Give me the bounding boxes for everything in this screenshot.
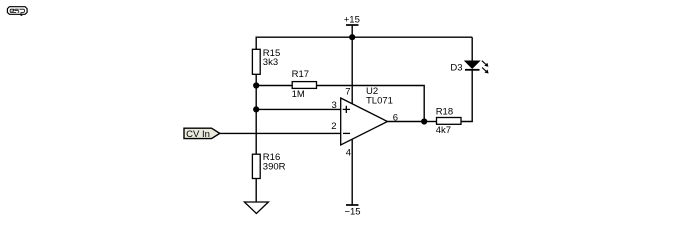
node A junction R15/R17: [253, 82, 259, 88]
wire node A vertical: [255, 86, 257, 155]
wire pin7 supply: [351, 37, 353, 104]
svg-text:1M: 1M: [292, 89, 305, 100]
node junction pin3: [253, 106, 259, 112]
svg-text:R18: R18: [436, 107, 453, 118]
wire R15 bottom lead: [255, 74, 257, 85]
LED arrow 1: [482, 61, 487, 65]
plus sign: [343, 108, 350, 110]
wire pin2 from CV In: [220, 132, 341, 134]
input tag CV In: [184, 128, 220, 140]
wire rail to LED: [471, 37, 473, 61]
esp logo: [7, 7, 27, 16]
svg-text:4k7: 4k7: [436, 125, 451, 136]
node junction +15 rail: [349, 34, 355, 40]
ground: [244, 202, 268, 214]
svg-text:3k3: 3k3: [263, 57, 278, 68]
svg-text:R17: R17: [292, 69, 309, 80]
minus sign: [343, 132, 350, 134]
svg-text:−15: −15: [344, 207, 360, 218]
+15 power terminal: [344, 15, 360, 38]
wire pin3: [256, 108, 341, 110]
svg-text:+15: +15: [344, 15, 360, 26]
resistor R16: [252, 152, 285, 178]
wire R16 to ground: [255, 179, 257, 203]
svg-text:TL071: TL071: [366, 95, 393, 106]
svg-text:4: 4: [346, 147, 351, 158]
op-amp U2 TL071: [331, 86, 398, 158]
svg-text:CV In: CV In: [186, 129, 210, 140]
resistor R15: [252, 48, 280, 75]
node junction output: [421, 118, 427, 124]
resistor R18: [424, 107, 461, 137]
LED arrow 2: [482, 68, 487, 72]
wire R18 to LED: [461, 70, 472, 122]
wire R15 top lead: [255, 37, 257, 50]
svg-text:3: 3: [332, 100, 337, 111]
svg-text:7: 7: [345, 87, 350, 98]
wire pin4 supply: [351, 140, 353, 206]
LED D3: [450, 61, 488, 74]
-15 power terminal: [344, 205, 360, 218]
wire top rail: [256, 36, 472, 38]
svg-text:D3: D3: [450, 62, 462, 73]
wire R17 to output: [317, 86, 425, 122]
svg-text:2: 2: [331, 121, 336, 132]
resistor R17: [256, 69, 316, 100]
wire output pin6: [387, 121, 424, 123]
svg-text:390R: 390R: [263, 162, 286, 173]
